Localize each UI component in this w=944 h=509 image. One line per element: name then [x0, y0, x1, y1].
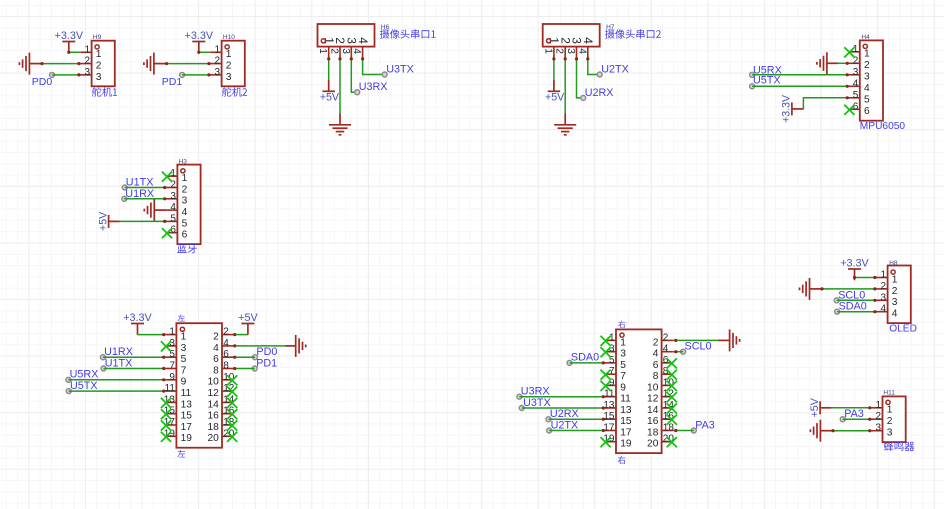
- svg-text:14: 14: [647, 405, 659, 416]
- svg-text:4: 4: [663, 344, 669, 355]
- svg-text:+3.3V: +3.3V: [781, 94, 793, 123]
- svg-text:U5TX: U5TX: [70, 380, 98, 392]
- svg-text:12: 12: [207, 388, 219, 399]
- svg-text:20: 20: [647, 439, 659, 450]
- svg-text:2: 2: [329, 48, 340, 54]
- svg-text:MPU6050: MPU6050: [860, 121, 906, 132]
- svg-text:+5V: +5V: [545, 92, 565, 104]
- svg-text:10: 10: [207, 377, 219, 388]
- svg-text:2: 2: [213, 332, 219, 343]
- svg-text:3: 3: [565, 48, 576, 54]
- svg-text:9: 9: [181, 377, 187, 388]
- svg-text:13: 13: [603, 400, 615, 411]
- svg-text:17: 17: [181, 422, 193, 433]
- svg-text:PA3: PA3: [695, 419, 715, 431]
- svg-text:4: 4: [356, 37, 370, 44]
- svg-text:3: 3: [853, 67, 859, 78]
- svg-text:2: 2: [554, 48, 565, 54]
- svg-text:2: 2: [226, 61, 232, 72]
- svg-text:2: 2: [215, 56, 221, 67]
- svg-text:3: 3: [340, 48, 351, 54]
- svg-text:4: 4: [182, 207, 188, 218]
- svg-text:H10: H10: [223, 34, 235, 41]
- svg-text:U3TX: U3TX: [386, 64, 414, 76]
- svg-text:3: 3: [170, 191, 176, 202]
- svg-text:2: 2: [663, 332, 669, 343]
- svg-text:16: 16: [207, 411, 219, 422]
- svg-text:1: 1: [864, 49, 870, 60]
- svg-text:4: 4: [223, 338, 229, 349]
- svg-text:1: 1: [85, 44, 91, 55]
- svg-text:3: 3: [875, 423, 881, 434]
- svg-text:+5V: +5V: [320, 92, 340, 104]
- svg-text:18: 18: [207, 422, 219, 433]
- svg-text:H11: H11: [883, 390, 895, 397]
- svg-text:2: 2: [892, 286, 898, 297]
- svg-text:4: 4: [853, 78, 859, 89]
- svg-text:2: 2: [85, 56, 91, 67]
- svg-text:11: 11: [165, 383, 176, 394]
- svg-text:3: 3: [881, 292, 887, 303]
- svg-text:U2RX: U2RX: [585, 87, 614, 99]
- svg-text:U3TX: U3TX: [523, 397, 551, 409]
- svg-text:SCL0: SCL0: [685, 341, 712, 353]
- svg-text:9: 9: [620, 382, 626, 393]
- svg-text:14: 14: [207, 399, 219, 410]
- svg-text:8: 8: [223, 361, 229, 372]
- svg-text:1: 1: [182, 173, 188, 184]
- svg-text:4: 4: [653, 349, 659, 360]
- svg-text:5: 5: [181, 354, 187, 365]
- svg-text:15: 15: [603, 411, 615, 422]
- svg-text:8: 8: [213, 365, 219, 376]
- svg-text:5: 5: [853, 90, 859, 101]
- svg-text:5: 5: [170, 213, 176, 224]
- svg-text:16: 16: [647, 416, 659, 427]
- svg-text:OLED: OLED: [889, 324, 917, 335]
- svg-text:13: 13: [620, 405, 632, 416]
- svg-text:10: 10: [647, 382, 659, 393]
- svg-text:SCL0: SCL0: [838, 289, 865, 301]
- svg-text:4: 4: [581, 37, 595, 44]
- svg-text:15: 15: [181, 411, 193, 422]
- svg-text:2: 2: [182, 184, 188, 195]
- svg-text:H9: H9: [93, 34, 102, 41]
- svg-text:7: 7: [181, 365, 187, 376]
- svg-text:17: 17: [620, 427, 632, 438]
- svg-text:6: 6: [864, 106, 870, 117]
- svg-text:2: 2: [96, 61, 102, 72]
- svg-text:3: 3: [96, 72, 102, 83]
- svg-text:13: 13: [181, 399, 193, 410]
- svg-text:5: 5: [182, 218, 188, 229]
- svg-text:3: 3: [864, 72, 870, 83]
- svg-text:2: 2: [887, 416, 893, 427]
- svg-text:U5TX: U5TX: [753, 75, 781, 87]
- svg-text:1: 1: [169, 327, 175, 338]
- svg-text:1: 1: [892, 274, 898, 285]
- svg-text:9: 9: [169, 372, 175, 383]
- svg-text:3: 3: [182, 196, 188, 207]
- svg-text:SDA0: SDA0: [839, 301, 867, 313]
- svg-text:H8: H8: [889, 260, 898, 267]
- svg-text:4: 4: [351, 48, 362, 54]
- svg-text:1: 1: [542, 48, 553, 54]
- svg-text:PD1: PD1: [162, 76, 183, 88]
- svg-text:U3RX: U3RX: [359, 81, 388, 93]
- svg-text:2: 2: [223, 327, 229, 338]
- svg-text:2: 2: [881, 281, 887, 292]
- svg-text:+3.3V: +3.3V: [55, 30, 84, 42]
- svg-text:1: 1: [181, 332, 187, 343]
- svg-text:H3: H3: [179, 159, 188, 166]
- svg-text:6: 6: [182, 230, 188, 241]
- svg-text:1: 1: [620, 337, 626, 348]
- svg-text:1: 1: [215, 44, 221, 55]
- svg-text:1: 1: [881, 270, 887, 281]
- svg-text:20: 20: [207, 433, 219, 444]
- svg-text:6: 6: [653, 360, 659, 371]
- svg-text:SDA0: SDA0: [571, 352, 599, 364]
- svg-text:19: 19: [620, 439, 632, 450]
- svg-text:+5V: +5V: [238, 312, 258, 324]
- svg-text:17: 17: [603, 423, 615, 434]
- svg-text:+3.3V: +3.3V: [185, 30, 214, 42]
- svg-text:2: 2: [864, 60, 870, 71]
- svg-text:6: 6: [223, 349, 229, 360]
- svg-text:3: 3: [226, 72, 232, 83]
- svg-text:4: 4: [170, 202, 176, 213]
- svg-text:PD1: PD1: [256, 357, 277, 369]
- svg-text:U2RX: U2RX: [550, 408, 579, 420]
- svg-text:+5V: +5V: [97, 211, 109, 231]
- svg-text:U2TX: U2TX: [551, 419, 579, 431]
- svg-text:H4: H4: [861, 34, 870, 41]
- svg-text:U1TX: U1TX: [126, 177, 154, 189]
- svg-text:1: 1: [226, 49, 232, 60]
- svg-text:4: 4: [864, 83, 870, 94]
- svg-text:+5V: +5V: [809, 397, 821, 417]
- svg-text:6: 6: [213, 354, 219, 365]
- svg-text:18: 18: [647, 427, 659, 438]
- svg-text:4: 4: [213, 343, 219, 354]
- svg-text:PD0: PD0: [256, 346, 277, 358]
- svg-text:1: 1: [317, 48, 328, 54]
- svg-text:5: 5: [620, 360, 626, 371]
- svg-text:12: 12: [647, 394, 659, 405]
- svg-text:3: 3: [215, 67, 221, 78]
- svg-text:U1RX: U1RX: [104, 346, 133, 358]
- svg-text:3: 3: [887, 428, 893, 439]
- svg-text:U3RX: U3RX: [521, 386, 550, 398]
- svg-text:5: 5: [864, 95, 870, 106]
- svg-text:2: 2: [653, 337, 659, 348]
- svg-text:3: 3: [181, 343, 187, 354]
- svg-text:4: 4: [576, 48, 587, 54]
- svg-text:U1RX: U1RX: [125, 188, 154, 200]
- svg-text:PA3: PA3: [844, 408, 864, 420]
- svg-text:4: 4: [881, 304, 887, 315]
- svg-text:+3.3V: +3.3V: [123, 312, 152, 324]
- svg-text:3: 3: [620, 349, 626, 360]
- svg-text:1: 1: [96, 49, 102, 60]
- svg-text:4: 4: [892, 309, 898, 320]
- svg-text:11: 11: [181, 388, 192, 399]
- svg-text:15: 15: [620, 416, 632, 427]
- svg-text:PD0: PD0: [32, 76, 53, 88]
- svg-text:3: 3: [85, 67, 91, 78]
- svg-text:11: 11: [620, 394, 631, 405]
- svg-text:1: 1: [887, 405, 893, 416]
- svg-text:7: 7: [169, 361, 175, 372]
- svg-text:3: 3: [892, 297, 898, 308]
- svg-text:19: 19: [181, 433, 193, 444]
- svg-text:U1TX: U1TX: [105, 357, 133, 369]
- svg-text:2: 2: [875, 411, 881, 422]
- svg-text:U5RX: U5RX: [70, 369, 99, 381]
- svg-text:1: 1: [875, 400, 881, 411]
- svg-text:8: 8: [653, 371, 659, 382]
- svg-text:+3.3V: +3.3V: [840, 257, 869, 269]
- svg-text:7: 7: [620, 371, 626, 382]
- svg-text:U2TX: U2TX: [601, 64, 629, 76]
